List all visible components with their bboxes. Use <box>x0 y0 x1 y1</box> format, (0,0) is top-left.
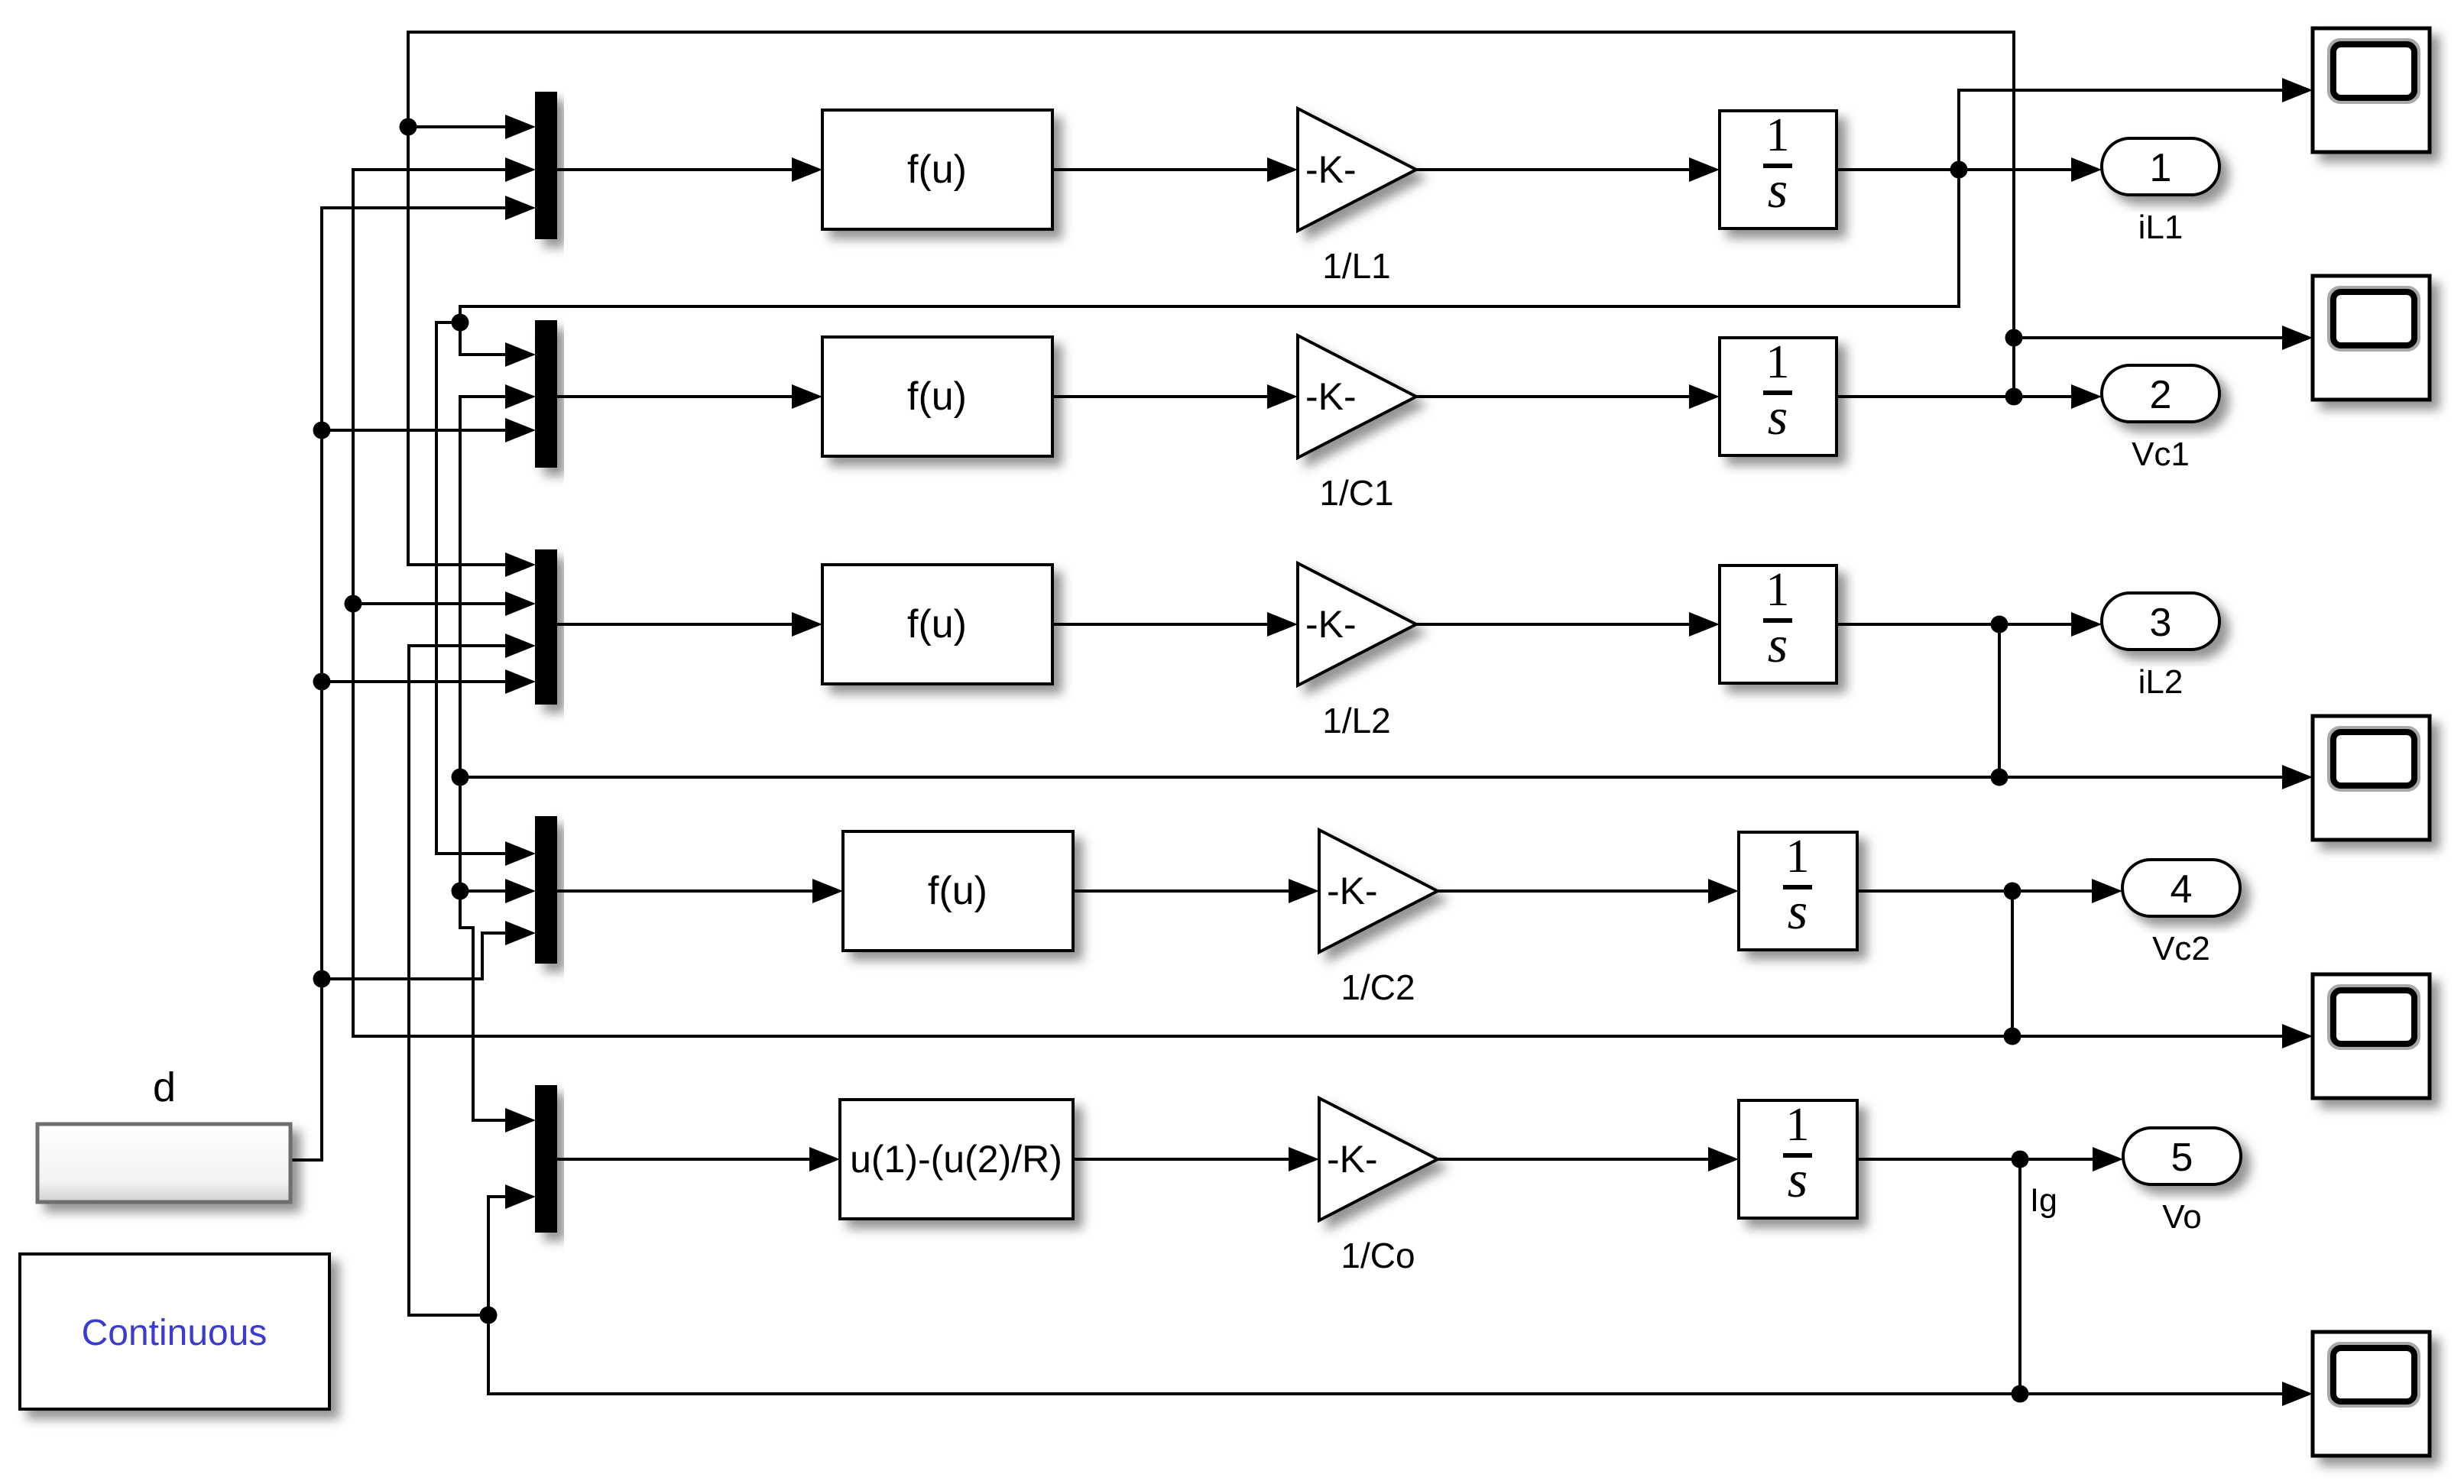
svg-text:f(u): f(u) <box>907 147 967 192</box>
junction Vo output <box>2012 1151 2029 1168</box>
wire d branch to mux4 in3 <box>322 921 536 979</box>
gain block row 1: -K- (1/L1) <box>1298 109 1416 231</box>
gain label 1/C2 <box>1341 967 1415 1007</box>
wire Vc2 to mux3 in2 <box>353 591 536 616</box>
wire integrator1 to outport 1 <box>1837 157 2102 182</box>
svg-text:f(u): f(u) <box>907 374 967 419</box>
wire d source block to left bus corner <box>290 196 536 1160</box>
wire mux2 to Fcn2 <box>557 384 822 409</box>
wire d to mux3 in4 <box>322 669 536 694</box>
wire Vc1 to scope2 <box>2014 326 2313 350</box>
svg-text:iL2: iL2 <box>2138 663 2184 701</box>
wire gain5 to integrator5 <box>1438 1147 1739 1171</box>
wire Fcn3 to gain3 <box>1052 612 1298 637</box>
svg-text:-K-: -K- <box>1305 603 1357 646</box>
svg-text:Vc1: Vc1 <box>2132 436 2190 473</box>
junction Vo / scope5 branch <box>2012 1385 2029 1403</box>
scope 1 <box>2313 28 2430 152</box>
svg-text:Continuous: Continuous <box>82 1313 267 1353</box>
wire iL1 branch to mux4 in1 <box>436 322 536 866</box>
label d <box>153 1064 176 1110</box>
input block d <box>37 1124 290 1202</box>
wire integrator4 to outport 4 <box>1857 879 2122 903</box>
Fcn block row 5: u(1)-(u(2)/R) <box>840 1100 1073 1219</box>
svg-text:s: s <box>1788 1150 1807 1208</box>
outport 2 (Vc1) <box>2102 365 2219 422</box>
wire Fcn4 to gain4 <box>1073 879 1319 903</box>
integrator block row 3: 1/s <box>1720 564 1837 683</box>
outport label iL1 <box>2138 209 2184 246</box>
scope 5 <box>2313 1332 2430 1456</box>
junction iL1 branch <box>452 314 469 332</box>
svg-text:iL1: iL1 <box>2138 209 2184 246</box>
svg-text:s: s <box>1768 387 1788 446</box>
outport label Vo <box>2162 1198 2201 1236</box>
gain label 1/L1 <box>1322 246 1391 286</box>
outport label Vc2 <box>2152 930 2210 967</box>
gain block row 3: -K- (1/L2) <box>1298 563 1416 685</box>
junction iL2 / mux4 in2 <box>452 883 469 900</box>
wire gain1 to integrator1 <box>1416 157 1720 182</box>
svg-text:f(u): f(u) <box>907 602 967 646</box>
wire iL1 feedback trunk to mux2 in1 <box>460 170 1959 367</box>
wire Vc2 feedback trunk to mux1 in2 <box>353 157 2012 1036</box>
gain block row 2: -K- (1/C1) <box>1298 335 1416 458</box>
mux M5 <box>535 1085 557 1233</box>
wire iL2 to scope3 <box>1999 765 2313 789</box>
svg-text:Vo: Vo <box>2162 1198 2201 1236</box>
wire Fcn1 to gain1 <box>1052 157 1298 182</box>
svg-text:1: 1 <box>2150 146 2172 190</box>
wire Vc2 to scope4 <box>2012 1024 2313 1048</box>
svg-text:1: 1 <box>1766 564 1790 616</box>
svg-text:1: 1 <box>1786 1099 1810 1151</box>
wire Fcn2 to gain2 <box>1052 384 1298 409</box>
integrator block row 1: 1/s <box>1720 109 1837 228</box>
svg-text:1/C2: 1/C2 <box>1341 967 1415 1007</box>
svg-text:1/Co: 1/Co <box>1341 1236 1415 1275</box>
svg-text:Ig: Ig <box>2030 1182 2057 1219</box>
Fcn block row 4: f(u) <box>843 831 1073 951</box>
wire Vo feedback trunk to mux5 in2 <box>488 1160 2020 1394</box>
svg-text:1/L2: 1/L2 <box>1322 701 1391 740</box>
outport label iL2 <box>2138 663 2184 701</box>
wire integrator3 to outport 3 <box>1837 612 2102 637</box>
wire iL2 branch to mux5 in1 <box>460 777 536 1132</box>
svg-text:1: 1 <box>1786 831 1810 883</box>
outport 5 (Vo) <box>2123 1128 2241 1184</box>
scope 2 <box>2313 276 2430 400</box>
junction Vc1 / scope2 branch <box>2005 329 2023 347</box>
wire mux1 to Fcn1 <box>557 157 822 182</box>
mux M3 <box>535 549 557 705</box>
wire mux5 to Fcn5 <box>557 1147 840 1171</box>
svg-text:s: s <box>1768 615 1788 673</box>
junction iL2 left branch <box>452 769 469 786</box>
Fcn block row 1: f(u) <box>822 110 1052 229</box>
node label Ig <box>2030 1182 2057 1219</box>
svg-text:f(u): f(u) <box>928 869 987 913</box>
junction d / mux4 in3 branch <box>313 970 331 988</box>
integrator block row 4: 1/s <box>1739 831 1857 950</box>
wire integrator2 to outport 2 <box>1837 384 2102 409</box>
wire integrator5 to outport 5 <box>1857 1147 2123 1171</box>
wire d to mux2 in3 <box>322 418 536 442</box>
svg-text:4: 4 <box>2171 867 2193 912</box>
svg-text:3: 3 <box>2150 601 2172 645</box>
gain block row 5: -K- (1/Co) <box>1319 1098 1438 1220</box>
svg-text:u(1)-(u(2)/R): u(1)-(u(2)/R) <box>850 1138 1062 1181</box>
outport 4 (Vc2) <box>2122 860 2240 916</box>
svg-text:s: s <box>1768 160 1788 219</box>
wire iL2 to mux4 in2 <box>460 879 536 903</box>
mux M4 <box>535 816 557 964</box>
junction Vo left branch <box>480 1307 498 1324</box>
wire mux3 to Fcn3 <box>557 612 822 637</box>
junction iL1 output <box>1950 161 1968 179</box>
outport label Vc1 <box>2132 436 2190 473</box>
svg-text:1/C1: 1/C1 <box>1319 473 1393 513</box>
svg-text:1: 1 <box>1766 109 1790 161</box>
junction d / mux2 in3 <box>313 422 331 439</box>
gain label 1/L2 <box>1322 701 1391 740</box>
junction Vc2 output <box>2004 883 2021 900</box>
svg-text:1/L1: 1/L1 <box>1322 246 1391 286</box>
wire iL1 to scope1 <box>1959 78 2313 170</box>
gain label 1/C1 <box>1319 473 1393 513</box>
Fcn block row 3: f(u) <box>822 565 1052 684</box>
wire gain2 to integrator2 <box>1416 384 1720 409</box>
junction iL2 / scope3 branch <box>1991 769 2008 786</box>
wire Fcn5 to gain5 <box>1073 1147 1319 1171</box>
svg-text:-K-: -K- <box>1305 375 1357 418</box>
mux M1 <box>535 92 557 239</box>
junction Vc1 / mux1 in1 <box>400 118 417 136</box>
wire iL2 feedback trunk to mux2 in2 <box>460 384 1999 777</box>
svg-text:-K-: -K- <box>1327 870 1378 912</box>
svg-text:2: 2 <box>2150 373 2172 417</box>
wire mux4 to Fcn4 <box>557 879 843 903</box>
gain block row 4: -K- (1/C2) <box>1319 830 1438 952</box>
junction Vc1 output <box>2005 388 2023 406</box>
svg-text:-K-: -K- <box>1327 1138 1378 1181</box>
junction Vc2 / scope4 branch <box>2004 1028 2021 1045</box>
wire Vo branch to mux3 in3 <box>409 633 536 1315</box>
junction Vc2 / mux3 in2 <box>345 595 362 613</box>
wire Vo to scope5 <box>2020 1382 2313 1406</box>
wire Vc1 feedback trunk to mux3 in1 <box>408 32 2014 577</box>
wire gain4 to integrator4 <box>1438 879 1739 903</box>
gain label 1/Co <box>1341 1236 1415 1275</box>
svg-text:1: 1 <box>1766 336 1790 388</box>
svg-text:-K-: -K- <box>1305 148 1357 191</box>
junction iL2 output <box>1991 616 2008 633</box>
junction d / mux3 in4 <box>313 673 331 691</box>
integrator block row 2: 1/s <box>1720 336 1837 455</box>
outport 1 (iL1) <box>2102 138 2219 195</box>
svg-text:Vc2: Vc2 <box>2152 930 2210 967</box>
svg-text:s: s <box>1788 882 1807 940</box>
Fcn block row 2: f(u) <box>822 337 1052 456</box>
wire Vc1 to mux1 in1 <box>408 115 536 139</box>
integrator block row 5: 1/s <box>1739 1099 1857 1218</box>
mux M2 <box>535 320 557 468</box>
wire gain3 to integrator3 <box>1416 612 1720 637</box>
powergui block Continuous <box>20 1254 329 1409</box>
scope 3 <box>2313 716 2430 840</box>
svg-text:5: 5 <box>2171 1136 2193 1180</box>
svg-text:d: d <box>153 1064 176 1110</box>
scope 4 <box>2313 974 2430 1098</box>
outport 3 (iL2) <box>2102 593 2219 650</box>
